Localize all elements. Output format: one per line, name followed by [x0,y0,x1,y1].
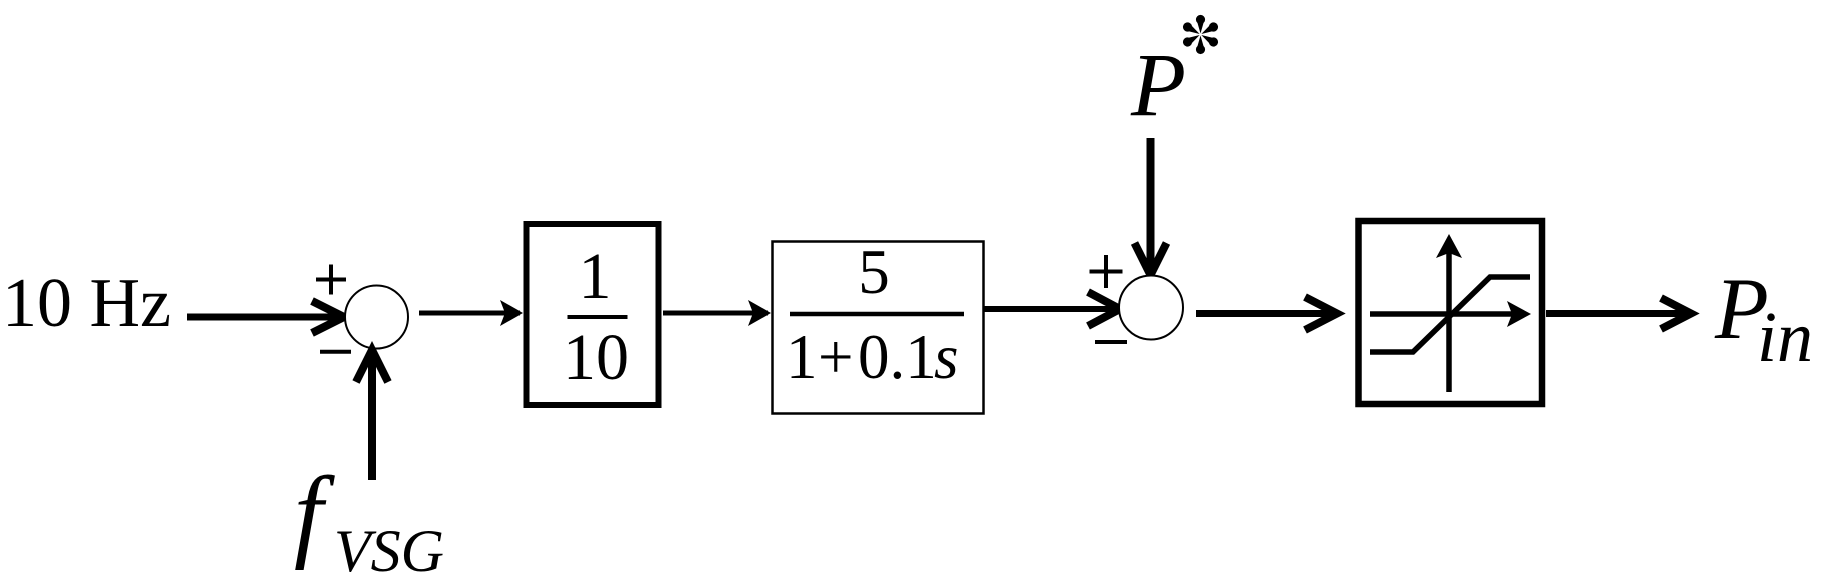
summing junction S2 [1119,276,1183,340]
svg-text:s: s [934,322,959,392]
svg-text:10 Hz: 10 Hz [2,265,171,342]
wire S1 to gain block [419,300,523,326]
wire gain block to lag block [663,300,771,326]
svg-text:10: 10 [563,321,629,394]
wire input to summing junction S1 [187,301,344,333]
svg-text:P: P [1130,36,1186,135]
svg-text:5: 5 [858,237,890,307]
saturation block U1 [1359,221,1543,404]
summing junction S1 [345,286,408,349]
node label fVSG [294,456,444,584]
horizontal axis arrow [1370,311,1513,317]
svg-text:0.1: 0.1 [858,322,937,392]
lag block 5/(1+0.1s) [773,237,984,414]
wire fVSG up into S1 [356,350,388,480]
plus sign at S2 [1090,255,1123,288]
wire P* down into S2 [1135,138,1167,275]
wire S2 to saturation block [1196,297,1337,330]
plus sign at S1 [316,265,346,295]
svg-text:+: + [818,322,854,392]
minus sign at S2 [1095,340,1127,344]
svg-text:in: in [1757,297,1813,377]
svg-text:1: 1 [579,240,612,313]
gain block 1/10 [527,224,659,405]
svg-text:VSG: VSG [334,518,444,584]
saturation curve [1370,277,1530,352]
wire lag block to summing junction S2 [984,292,1120,326]
node label P* [1130,15,1220,135]
minus sign at S1 [320,350,351,354]
svg-text:1: 1 [786,322,818,392]
vertical axis arrow [1446,252,1452,392]
wire saturation block to output [1546,298,1691,329]
output label Pin [1714,261,1813,377]
